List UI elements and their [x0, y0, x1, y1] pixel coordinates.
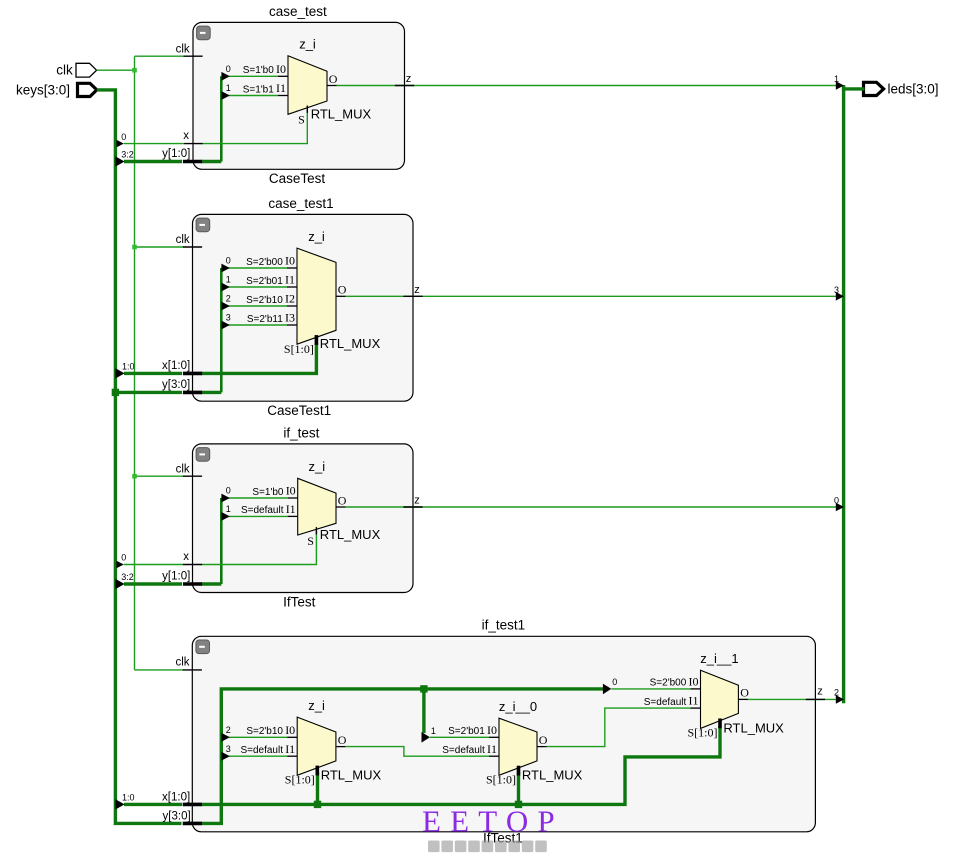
svg-text:1: 1 — [431, 726, 436, 736]
module if_test1 collapse button — [196, 640, 210, 654]
wire keys junction branch to case_test1 y[3:0] — [115, 391, 182, 394]
svg-text:z_i: z_i — [308, 698, 325, 713]
module if_test1 box — [192, 636, 815, 832]
tap triangle case_test1 I3 — [221, 321, 229, 330]
svg-text:CaseTest: CaseTest — [269, 171, 326, 186]
wire case_test x to mux select S — [202, 110, 308, 144]
mux z_i output pin O stub — [336, 506, 346, 508]
svg-text:clk: clk — [175, 657, 189, 669]
svg-text:O: O — [329, 72, 338, 86]
svg-text:I3: I3 — [285, 311, 295, 325]
tap triangle bit0 at y bus end — [603, 684, 611, 695]
wire case_test1 x[1:0] to mux select — [201, 343, 316, 373]
wire clk trunk vertical — [134, 56, 136, 670]
svg-text:keys[3:0]: keys[3:0] — [16, 82, 70, 97]
junction x bus at mux z_i__0 select — [515, 801, 522, 808]
svg-text:1: 1 — [834, 74, 839, 84]
svg-text:z: z — [406, 73, 412, 85]
case_test1 y bus horizontal from stub — [201, 391, 221, 394]
mux z_i__1 output pin O stub — [738, 698, 748, 700]
svg-text:S=default: S=default — [240, 745, 283, 756]
mux z_i body — [297, 248, 336, 344]
svg-text:S[1:0]: S[1:0] — [688, 725, 718, 739]
svg-text:clk: clk — [56, 63, 73, 78]
wire case_test z output — [337, 85, 843, 87]
tap triangle case_test1 I0 — [221, 264, 229, 273]
wire if_test1 x[1:0] bus bottom run to select chain — [201, 726, 720, 804]
tap triangle case_test z bit1 — [836, 81, 844, 90]
svg-text:CaseTest1: CaseTest1 — [267, 403, 331, 418]
tap triangle if_test1 z bit2 — [836, 695, 844, 704]
svg-text:3: 3 — [226, 313, 231, 323]
case_test pin y[1:0] — [183, 160, 202, 164]
svg-text:I1: I1 — [286, 502, 296, 516]
svg-text:I0: I0 — [285, 723, 295, 737]
svg-text:S=1'b0: S=1'b0 — [252, 487, 284, 498]
case_test internal y bus vertical — [220, 76, 223, 161]
wire keys tap 3:2 to case_test y[1:0] — [124, 160, 182, 163]
svg-text:O: O — [740, 686, 749, 700]
svg-text:z: z — [414, 495, 420, 507]
svg-text:S[1:0]: S[1:0] — [284, 342, 314, 356]
module case_test collapse button — [197, 26, 211, 40]
svg-text:z: z — [817, 686, 823, 698]
if_test pin y[1:0] — [183, 582, 202, 586]
svg-text:0: 0 — [834, 495, 839, 505]
svg-text:y[3:0]: y[3:0] — [162, 379, 190, 391]
svg-text:0: 0 — [121, 553, 126, 563]
svg-text:S=2'b11: S=2'b11 — [247, 314, 283, 325]
svg-text:S=default: S=default — [644, 697, 687, 708]
svg-text:S[1:0]: S[1:0] — [486, 773, 516, 787]
svg-text:I1: I1 — [487, 742, 497, 756]
case_test1 pin clk — [183, 246, 202, 248]
svg-text:O: O — [338, 733, 347, 747]
svg-text:I1: I1 — [689, 694, 699, 708]
svg-text:y[3:0]: y[3:0] — [163, 810, 191, 822]
svg-text:clk: clk — [176, 234, 190, 246]
mux z_i__1 select pin S stub — [718, 718, 722, 728]
svg-text:S[1:0]: S[1:0] — [285, 773, 315, 787]
if_test1 pin clk — [183, 669, 202, 671]
svg-text:O: O — [539, 733, 548, 747]
mux z_i select pin S stub — [306, 106, 308, 113]
module case_test1 box — [193, 214, 414, 401]
tap triangle case_test1 z bit3 — [836, 292, 844, 301]
wire z_i__0 output O to z_i__1 I1 — [547, 708, 691, 747]
wire leds bus to output port — [842, 87, 865, 90]
svg-text:I1: I1 — [276, 81, 286, 95]
svg-text:0: 0 — [612, 677, 617, 687]
wire if_test mux input I0 — [221, 497, 287, 499]
svg-text:S=2'b01: S=2'b01 — [246, 276, 283, 287]
junction clk at clk port level — [132, 68, 137, 73]
wire case_test1 mux input I0 — [221, 267, 287, 269]
wire keys[3:0] from port — [97, 90, 182, 824]
tap triangle keys bit0 case_test — [116, 140, 123, 148]
svg-text:S=1'b0: S=1'b0 — [243, 65, 275, 76]
mux z_i input pin I0 stub — [287, 267, 297, 269]
wire y bus bit1 branch down — [422, 689, 425, 733]
svg-text:1:0: 1:0 — [122, 793, 135, 803]
svg-text:z_i: z_i — [309, 459, 326, 474]
svg-text:S=2'b00: S=2'b00 — [246, 257, 283, 268]
wire if_test mux input I1 — [221, 515, 287, 517]
mux z_i select pin S stub — [315, 766, 319, 776]
wire clk branch to case_test1 — [135, 246, 184, 248]
svg-text:I0: I0 — [487, 723, 497, 737]
svg-text:RTL_MUX: RTL_MUX — [321, 767, 382, 782]
wire leds[3:0] collector bus vertical — [842, 85, 845, 703]
svg-text:y[1:0]: y[1:0] — [162, 148, 190, 160]
wire keys tap 1:0 to if_test1 x[1:0] — [124, 803, 182, 806]
svg-text:case_test1: case_test1 — [268, 196, 333, 211]
wire case_test mux input I1 — [221, 95, 278, 97]
svg-text:x[1:0]: x[1:0] — [162, 791, 190, 803]
svg-text:0: 0 — [226, 256, 231, 266]
wire bit1 to z_i__0 I0 — [430, 736, 489, 738]
svg-text:I0: I0 — [689, 675, 699, 689]
if_test pin z — [403, 506, 422, 508]
tap triangle keys 1:0 if_test1 — [115, 799, 124, 809]
mux z_i select pin S stub — [315, 335, 319, 345]
tap triangle keys bit0 if_test — [116, 561, 123, 569]
wire keys tap 1:0 to case_test1 x[1:0] — [124, 372, 182, 375]
svg-text:RTL_MUX: RTL_MUX — [311, 106, 372, 121]
wire clk branch to if_test1 — [135, 669, 184, 671]
tap triangle keys 1:0 case_test1 — [115, 368, 124, 378]
svg-text:3:2: 3:2 — [121, 150, 134, 160]
wire keys tap 0 to case_test x — [124, 143, 183, 145]
svg-text:leds[3:0]: leds[3:0] — [888, 82, 939, 97]
mux z_i body — [298, 478, 336, 535]
wire if_test z output — [346, 506, 843, 508]
tap triangle keys 3:2 if_test — [115, 579, 124, 589]
wire clk branch to case_test — [135, 55, 184, 57]
tap triangle case_test1 I2 — [221, 302, 229, 311]
svg-text:S=1'b1: S=1'b1 — [243, 84, 275, 95]
svg-text:clk: clk — [176, 43, 190, 55]
if_test1 y[3:0] bus: stub right, riser up, top run — [201, 689, 603, 824]
junction clk at if_test — [132, 474, 137, 479]
case_test1 pin z — [403, 295, 422, 297]
wire clk branch to if_test — [135, 475, 184, 477]
wire z_i output O to z_i__0 I1 — [345, 747, 489, 757]
junction clk at case_test1 — [132, 245, 137, 250]
svg-text:EETOP: EETOP — [422, 804, 564, 839]
wire if_test x to mux select S — [202, 531, 317, 565]
mux z_i input pin I3 stub — [287, 324, 297, 326]
mux z_i body — [288, 56, 327, 115]
tap triangle case_test1 I1 — [221, 283, 229, 292]
svg-text:S=default: S=default — [241, 505, 284, 516]
svg-text:1: 1 — [226, 83, 231, 93]
svg-text:x: x — [183, 130, 189, 142]
svg-text:I0: I0 — [285, 254, 295, 268]
mux z_i output pin O stub — [336, 746, 346, 748]
mux z_i__1 input pin I0 stub — [691, 688, 701, 690]
output port leds[3:0] — [864, 82, 884, 95]
tap triangle case_test I1 — [221, 91, 229, 100]
module case_test1 collapse button — [196, 218, 210, 232]
module case_test box — [193, 22, 405, 169]
svg-text:1: 1 — [226, 504, 231, 514]
mux z_i__0 input pin I1 stub — [489, 755, 499, 757]
case_test pin z — [395, 85, 414, 87]
svg-text:IfTest: IfTest — [283, 594, 316, 609]
svg-text:z_i__1: z_i__1 — [700, 651, 738, 666]
wire select branch to z_i__0 S[1:0] — [517, 772, 520, 804]
svg-text:I1: I1 — [285, 742, 295, 756]
svg-text:x[1:0]: x[1:0] — [162, 360, 190, 372]
mux z_i input pin I2 stub — [287, 305, 297, 307]
tap triangle bit1 to z_i__0 I0 — [422, 732, 430, 743]
junction y bus at bit1 branch — [420, 685, 427, 692]
input port keys[3:0] — [78, 83, 97, 96]
wire case_test1 mux input I3 — [221, 324, 287, 326]
mux z_i__1 body — [701, 670, 739, 728]
wire case_test1 mux input I2 — [221, 305, 287, 307]
svg-text:z_i: z_i — [308, 229, 325, 244]
if_test y bus horizontal from stub — [201, 582, 221, 585]
if_test internal y bus vertical — [220, 498, 223, 584]
case_test1 pin y[3:0] — [183, 391, 202, 395]
mux z_i__0 input pin I0 stub — [489, 736, 499, 738]
junction keys y[3:0] case_test1 — [112, 389, 119, 396]
mux z_i__0 output pin O stub — [537, 746, 547, 748]
wire keys tap 0 to if_test x — [124, 564, 183, 566]
tap triangle if_test z bit0 — [836, 503, 844, 512]
svg-text:RTL_MUX: RTL_MUX — [320, 336, 381, 351]
watermark chinese text placeholder — [428, 841, 440, 853]
svg-text:I0: I0 — [276, 62, 286, 76]
svg-text:y[1:0]: y[1:0] — [162, 571, 190, 583]
wire keys tap 3:2 to if_test y[1:0] — [124, 582, 182, 585]
tap triangle case_test I0 — [221, 72, 229, 81]
svg-text:I2: I2 — [285, 292, 295, 306]
svg-text:RTL_MUX: RTL_MUX — [723, 720, 784, 735]
mux z_i input pin I0 stub — [288, 497, 298, 499]
if_test1 y bus taps for z_i I0/I1 — [221, 736, 287, 738]
input port clk — [76, 63, 97, 77]
mux z_i select pin S stub — [315, 527, 317, 534]
svg-text:I1: I1 — [285, 273, 295, 287]
if_test pin x — [183, 564, 202, 566]
svg-text:S=2'b10: S=2'b10 — [246, 726, 283, 737]
wire bit0 to z_i__1 I0 — [611, 688, 690, 690]
svg-text:2: 2 — [226, 294, 231, 304]
svg-text:RTL_MUX: RTL_MUX — [522, 767, 583, 782]
svg-text:1: 1 — [226, 275, 231, 285]
svg-text:O: O — [338, 283, 347, 297]
svg-text:2: 2 — [834, 688, 839, 698]
svg-text:3: 3 — [226, 744, 231, 754]
svg-text:case_test: case_test — [269, 4, 327, 19]
svg-text:I0: I0 — [286, 484, 296, 498]
module if_test box — [193, 444, 414, 593]
svg-text:0: 0 — [226, 64, 231, 74]
tap triangle if_test I1 — [221, 512, 229, 521]
if_test1 pin x[1:0] — [183, 803, 202, 807]
svg-text:z_i: z_i — [299, 37, 316, 52]
mux z_i output pin O stub — [336, 295, 346, 297]
module if_test collapse button — [196, 448, 210, 462]
svg-text:if_test: if_test — [283, 425, 319, 440]
mux z_i__0 select pin S stub — [517, 766, 521, 776]
tap triangle keys 3:2 case_test — [115, 156, 124, 166]
svg-text:0: 0 — [226, 486, 231, 496]
case_test pin clk — [183, 55, 202, 57]
wire select branch to z_i S[1:0] — [316, 772, 319, 804]
mux z_i body — [297, 717, 336, 775]
svg-text:x: x — [183, 551, 189, 563]
case_test1 pin x[1:0] — [183, 372, 202, 376]
case_test y bus horizontal from stub — [201, 160, 221, 163]
if_test pin clk — [183, 475, 202, 477]
svg-text:3: 3 — [834, 285, 839, 295]
wire case_test1 mux input I1 — [221, 286, 287, 288]
svg-text:RTL_MUX: RTL_MUX — [320, 527, 381, 542]
svg-text:S=2'b10: S=2'b10 — [246, 295, 283, 306]
svg-text:if_test1: if_test1 — [482, 618, 526, 633]
case_test1 internal y bus vertical — [220, 268, 223, 392]
wire case_test mux input I0 — [221, 75, 278, 77]
mux z_i input pin I1 stub — [288, 515, 298, 517]
mux z_i output pin O stub — [327, 85, 337, 87]
svg-text:0: 0 — [121, 132, 126, 142]
mux z_i__0 body — [499, 718, 537, 775]
case_test pin x — [183, 143, 202, 145]
svg-text:O: O — [338, 493, 347, 507]
wire clk from port to junction — [97, 69, 135, 71]
svg-text:2: 2 — [226, 725, 231, 735]
svg-text:S: S — [298, 112, 305, 126]
mux z_i__1 input pin I1 stub — [691, 707, 701, 709]
tap triangle if_test I0 — [221, 494, 229, 503]
svg-text:z_i__0: z_i__0 — [499, 699, 537, 714]
junction x bus at mux z_i select — [314, 801, 321, 808]
svg-text:S=2'b00: S=2'b00 — [650, 678, 687, 689]
mux z_i input pin I0 stub — [287, 736, 297, 738]
mux z_i input pin I1 stub — [287, 755, 297, 757]
wire if_test1 z output — [748, 698, 842, 700]
svg-text:S=2'b01: S=2'b01 — [448, 726, 485, 737]
mux z_i input pin I0 stub — [278, 75, 288, 77]
mux z_i input pin I1 stub — [287, 286, 297, 288]
svg-text:S=default: S=default — [442, 745, 485, 756]
svg-text:3:2: 3:2 — [121, 572, 134, 582]
svg-text:clk: clk — [176, 463, 190, 475]
svg-text:z: z — [414, 284, 420, 296]
wire case_test1 z output — [346, 295, 843, 297]
svg-text:S: S — [307, 534, 314, 548]
if_test1 pin y[3:0] — [183, 822, 202, 826]
if_test1 pin z — [806, 698, 825, 700]
svg-text:1:0: 1:0 — [122, 362, 135, 372]
mux z_i input pin I1 stub — [278, 95, 288, 97]
